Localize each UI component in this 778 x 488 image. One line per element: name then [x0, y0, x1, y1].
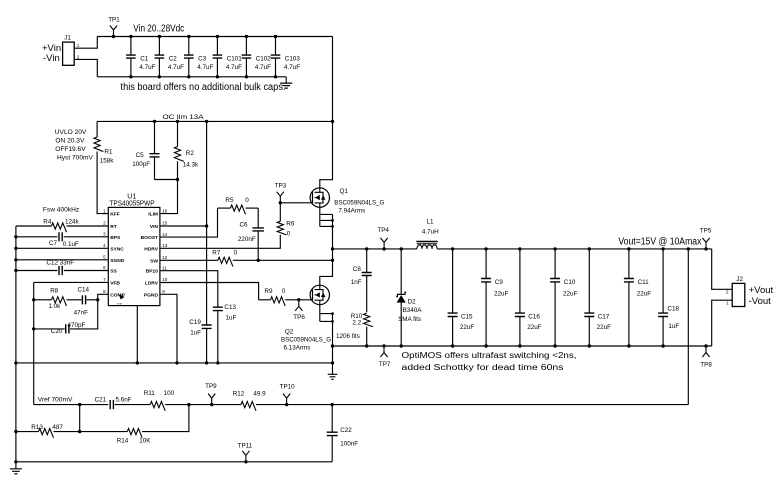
wire SW pin 12: [160, 259, 218, 261]
wire signal ground vertical: [15, 226, 17, 468]
svg-text:13: 13: [162, 243, 168, 248]
svg-text:1uF: 1uF: [226, 315, 237, 322]
svg-text:R8: R8: [50, 288, 59, 295]
svg-text:OFF19.6V: OFF19.6V: [55, 146, 86, 153]
svg-text:4.7uF: 4.7uF: [197, 64, 213, 71]
svg-text:TP8: TP8: [700, 362, 712, 369]
svg-text:7.94Arms: 7.94Arms: [338, 207, 365, 214]
svg-text:BSC059N04LS_G: BSC059N04LS_G: [334, 200, 384, 207]
svg-text:47nF: 47nF: [74, 309, 89, 316]
wire Vin top rail: [97, 36, 332, 38]
svg-text:C7: C7: [49, 240, 58, 247]
wire input ground rail: [97, 76, 286, 78]
svg-text:C2: C2: [169, 56, 178, 63]
svg-text:487: 487: [52, 424, 63, 431]
svg-text:22uF: 22uF: [460, 324, 475, 331]
svg-text:C14: C14: [78, 287, 90, 294]
svg-text:BOOST: BOOST: [141, 235, 158, 241]
wire C5-R2 bottom to ILIM: [155, 179, 178, 181]
node divider junction: [187, 403, 190, 406]
svg-text:U1: U1: [127, 193, 136, 200]
svg-text:R12: R12: [233, 390, 245, 397]
capacitor C14 47nF: [87, 299, 98, 301]
wire tap to lower divider: [79, 405, 81, 432]
svg-text:R9: R9: [264, 288, 273, 295]
svg-text:R5: R5: [225, 197, 234, 204]
svg-text:11: 11: [162, 265, 167, 270]
svg-text:C11: C11: [638, 279, 650, 286]
svg-text:-Vin: -Vin: [43, 53, 60, 64]
transistor Q1 BSC059N04LS_G: [310, 188, 329, 207]
capacitor C103 4.7uF: [275, 37, 277, 56]
svg-text:1nF: 1nF: [351, 279, 362, 286]
svg-text:KFF: KFF: [110, 212, 120, 218]
capacitor C8 1nF snubber: [365, 247, 368, 250]
svg-text:C16: C16: [528, 313, 540, 320]
connector J1: [63, 42, 75, 65]
testpoint TP10: [285, 403, 288, 406]
wire SGND to sgnd: [16, 259, 108, 261]
svg-text:HDRV: HDRV: [144, 246, 159, 252]
svg-text:C10: C10: [564, 279, 576, 286]
testpoint TP1: [112, 35, 115, 38]
svg-text:158k: 158k: [100, 158, 115, 165]
node Vref divider tap: [78, 403, 81, 406]
svg-text:TP6: TP6: [293, 314, 305, 321]
resistor R5 0: [218, 207, 231, 209]
svg-text:Vout=15V @ 10Amax: Vout=15V @ 10Amax: [618, 236, 701, 247]
svg-text:R14: R14: [117, 437, 129, 444]
svg-text:J2: J2: [736, 276, 743, 283]
svg-text:RT: RT: [110, 224, 117, 230]
svg-text:10K: 10K: [139, 437, 151, 444]
svg-text:SGND: SGND: [110, 258, 125, 264]
svg-text:BP10: BP10: [146, 269, 159, 275]
svg-text:ILIM: ILIM: [148, 212, 158, 218]
svg-text:100nF: 100nF: [340, 440, 358, 447]
resistor R9 0: [259, 299, 271, 301]
svg-text:B340A: B340A: [403, 307, 423, 314]
testpoint TP6: [297, 298, 300, 301]
capacitor C12 33nF: [16, 270, 58, 272]
svg-text:C102: C102: [256, 56, 272, 63]
svg-text:TP9: TP9: [205, 383, 217, 390]
svg-text:C18: C18: [667, 305, 679, 312]
testpoint TP9: [210, 403, 213, 406]
capacitor C16 22uF: [519, 249, 521, 313]
svg-text:12: 12: [162, 255, 168, 260]
svg-text:14.3k: 14.3k: [183, 162, 199, 169]
svg-text:C1: C1: [140, 56, 149, 63]
resistor R7 0: [218, 257, 233, 266]
capacitor C7 0.1uF: [16, 236, 58, 238]
svg-text:C3: C3: [198, 56, 207, 63]
svg-text:R6: R6: [286, 220, 295, 227]
wire VFB node vertical: [33, 282, 35, 404]
testpoint TP11: [244, 460, 247, 463]
capacitor C15 22uF: [452, 249, 454, 313]
wire OC ilim rail: [97, 120, 332, 122]
U1 thermal pad 17: [120, 295, 125, 300]
wire Vout rail: [437, 248, 712, 250]
diode D2 B340A schottky: [400, 247, 403, 250]
svg-text:VIN: VIN: [150, 224, 159, 230]
svg-text:this board offers no additiona: this board offers no additional bulk cap…: [121, 82, 286, 93]
svg-text:J1: J1: [64, 34, 71, 41]
svg-text:100pF: 100pF: [132, 161, 150, 168]
wire SW node vertical: [320, 214, 333, 285]
svg-text:SMA fits: SMA fits: [398, 316, 421, 323]
resistor R8 1.0k: [67, 299, 82, 301]
wire output ground rail: [333, 345, 712, 347]
resistor R13 487: [16, 431, 39, 433]
svg-text:C8: C8: [353, 266, 362, 273]
svg-text:C9: C9: [495, 279, 504, 286]
capacitor C21 5.6nF: [110, 400, 113, 409]
wire SW rail: [333, 248, 417, 250]
svg-text:1uF: 1uF: [190, 329, 201, 336]
svg-text:Q2: Q2: [285, 328, 294, 335]
capacitor C19 1uF: [206, 226, 208, 325]
svg-text:2.2: 2.2: [352, 320, 361, 327]
svg-text:4.7uF: 4.7uF: [284, 64, 300, 71]
capacitor C17 22uF: [588, 249, 590, 313]
capacitor C10 22uF: [554, 249, 556, 279]
wire VIN pin 15: [160, 225, 207, 227]
svg-text:BSC059N04LS_G: BSC059N04LS_G: [281, 337, 331, 344]
svg-text:C17: C17: [598, 313, 610, 320]
capacitor C13 1uF: [213, 307, 223, 310]
capacitor C18 1uF: [662, 249, 664, 313]
svg-text:LDRV: LDRV: [145, 281, 159, 287]
svg-text:C101: C101: [227, 56, 243, 63]
connector J2: [732, 283, 745, 306]
svg-text:Vin 20..28Vdc: Vin 20..28Vdc: [133, 24, 184, 35]
svg-text:5.6nF: 5.6nF: [116, 396, 132, 403]
svg-text:4.7uF: 4.7uF: [255, 64, 271, 71]
svg-text:C12: C12: [46, 259, 58, 266]
wire VFB pin 7: [34, 281, 109, 283]
wire J1 pin1 to Vin top rail: [74, 37, 97, 49]
svg-text:220nF: 220nF: [238, 236, 256, 243]
wire BP10 pin 11: [160, 271, 218, 308]
inductor L1 4.7uH: [416, 241, 437, 243]
capacitor C11 22uF: [628, 249, 630, 279]
capacitor C102 4.7uF: [245, 37, 247, 56]
svg-text:C5: C5: [136, 152, 145, 159]
ground signal: [10, 469, 22, 474]
svg-text:4.7uF: 4.7uF: [168, 64, 184, 71]
capacitor C2 4.7uF: [158, 37, 160, 56]
svg-text:1uF: 1uF: [668, 323, 679, 330]
Q1 source package pins: [319, 207, 321, 226]
resistor R1 158k: [96, 121, 98, 137]
testpoint TP4: [382, 247, 385, 250]
svg-text:TP11: TP11: [238, 442, 253, 449]
svg-text:0: 0: [245, 197, 249, 204]
resistor R14 10K: [80, 431, 128, 433]
testpoint TP8: [704, 344, 707, 347]
svg-text:R2: R2: [186, 150, 195, 157]
svg-text:C13: C13: [224, 304, 236, 311]
svg-text:C20: C20: [51, 328, 63, 335]
svg-text:added Schottky for dead time 6: added Schottky for dead time 60ns: [402, 363, 564, 372]
capacitor C9 22uF: [485, 249, 487, 279]
wire Q1 gate: [280, 202, 312, 204]
transistor Q2 BSC059N04LS_G: [310, 285, 329, 304]
wire BOOST pin 14: [160, 208, 218, 237]
svg-text:17: 17: [117, 302, 123, 307]
svg-text:1.0k: 1.0k: [48, 303, 61, 310]
svg-text:4.7uF: 4.7uF: [226, 64, 242, 71]
wire control ground rail: [16, 362, 333, 364]
wire J2 pin2 to output ground: [712, 300, 733, 346]
svg-text:22uF: 22uF: [597, 324, 612, 331]
resistor R2 14.3k: [176, 120, 179, 123]
svg-text:124k: 124k: [65, 218, 80, 225]
resistor R6 0: [277, 221, 286, 235]
testpoint TP5: [704, 247, 707, 250]
svg-text:L1: L1: [427, 218, 435, 225]
svg-text:TP3: TP3: [275, 182, 287, 189]
wire U1 pad to ground rail: [136, 306, 138, 363]
svg-text:0: 0: [234, 249, 238, 256]
svg-text:1206 fits: 1206 fits: [336, 333, 360, 340]
svg-text:C19: C19: [189, 319, 201, 326]
svg-text:SS: SS: [110, 269, 117, 275]
svg-text:C22: C22: [340, 427, 352, 434]
resistor R4 124k: [16, 225, 52, 227]
svg-text:VFB: VFB: [110, 280, 120, 286]
svg-text:33nF: 33nF: [60, 259, 75, 266]
svg-text:14: 14: [162, 232, 168, 237]
capacitor C101 4.7uF: [216, 37, 218, 56]
svg-text:OC Ilm 13A: OC Ilm 13A: [163, 114, 205, 121]
svg-text:-Vout: -Vout: [749, 296, 772, 307]
svg-text:22uF: 22uF: [494, 291, 509, 298]
svg-text:49.9: 49.9: [253, 390, 266, 397]
svg-text:10: 10: [162, 277, 168, 282]
svg-text:SW: SW: [150, 258, 158, 264]
svg-text:Q1: Q1: [340, 188, 349, 195]
op-amp U1 TPS40055PWP: [108, 207, 160, 305]
wire feedback line: [34, 404, 109, 406]
svg-text:C15: C15: [461, 313, 473, 320]
Q2 source package pins: [319, 305, 321, 322]
svg-text:TP7: TP7: [379, 361, 391, 368]
wire input vertical to Q1 drain: [320, 37, 333, 188]
ground main: [328, 374, 338, 379]
testpoint TP7: [382, 344, 385, 347]
wire Vout to J2 pin1: [712, 249, 733, 289]
ground input rail: [285, 77, 287, 83]
capacitor C3 4.7uF: [188, 37, 190, 56]
capacitor C22 100nF: [331, 403, 334, 406]
svg-text:PGND: PGND: [144, 292, 159, 298]
capacitor C20 470pF: [70, 300, 98, 329]
svg-text:+Vout: +Vout: [749, 285, 774, 296]
svg-text:OptiMOS offers ultrafast switc: OptiMOS offers ultrafast switching <2ns,: [402, 351, 577, 360]
svg-text:R11: R11: [144, 390, 156, 397]
svg-text:R4: R4: [43, 218, 52, 225]
wire Q2 source to ground: [332, 314, 334, 374]
svg-text:6.13Arms: 6.13Arms: [284, 345, 311, 352]
wire HDRV pin 13: [160, 235, 280, 248]
svg-text:BPS: BPS: [110, 235, 121, 241]
svg-text:D2: D2: [408, 298, 417, 305]
wire SYNC to sgnd: [16, 247, 108, 249]
svg-text:C103: C103: [285, 56, 301, 63]
svg-text:ON 20.3V: ON 20.3V: [55, 138, 85, 145]
svg-text:UVLO 20V: UVLO 20V: [55, 129, 87, 136]
svg-text:Hyst 700mV: Hyst 700mV: [57, 155, 94, 162]
testpoint TP3: [277, 192, 284, 203]
svg-text:4.7uF: 4.7uF: [139, 64, 155, 71]
capacitor C6 220nF: [257, 208, 259, 228]
svg-text:0.1uF: 0.1uF: [63, 241, 79, 248]
svg-text:R1: R1: [104, 149, 113, 156]
svg-text:TP4: TP4: [377, 227, 389, 234]
capacitor C5 100pF: [153, 120, 156, 123]
wire feedback sense vertical: [687, 247, 690, 250]
svg-text:C21: C21: [95, 396, 107, 403]
svg-text:22uF: 22uF: [563, 291, 578, 298]
wire LDRV pin 10: [160, 283, 259, 300]
svg-text:4.7uH: 4.7uH: [422, 229, 439, 236]
svg-text:22uF: 22uF: [527, 324, 542, 331]
wire OC rail to VIN node: [205, 120, 208, 123]
resistor R12 49.9: [241, 402, 256, 411]
svg-text:R13: R13: [31, 424, 43, 431]
svg-text:16: 16: [162, 208, 168, 213]
capacitor C1 4.7uF: [130, 37, 132, 56]
resistor R11 100: [115, 404, 151, 406]
svg-text:TP5: TP5: [700, 228, 712, 235]
svg-text:0: 0: [287, 231, 291, 238]
wire PGND pin 9: [160, 294, 177, 363]
svg-text:TP10: TP10: [280, 383, 296, 390]
svg-text:0: 0: [282, 288, 286, 295]
wire COMP pin 8: [98, 294, 109, 300]
svg-text:TPS40055PWP: TPS40055PWP: [110, 201, 155, 208]
svg-text:SYNC: SYNC: [110, 246, 124, 252]
svg-text:C6: C6: [240, 222, 249, 229]
resistor R10 2.2 1206: [364, 313, 373, 326]
svg-text:15: 15: [162, 221, 168, 226]
svg-text:470pF: 470pF: [68, 322, 86, 329]
svg-text:TP1: TP1: [108, 17, 120, 24]
wire J1 pin2 to input ground rail: [74, 59, 97, 76]
svg-text:Vref 700mV: Vref 700mV: [38, 397, 73, 404]
svg-text:22uF: 22uF: [637, 291, 652, 298]
svg-text:100: 100: [164, 390, 175, 397]
svg-text:Fsw 400kHz: Fsw 400kHz: [43, 207, 79, 214]
wire bottom ground rail: [16, 461, 332, 463]
svg-text:R7: R7: [212, 249, 221, 256]
